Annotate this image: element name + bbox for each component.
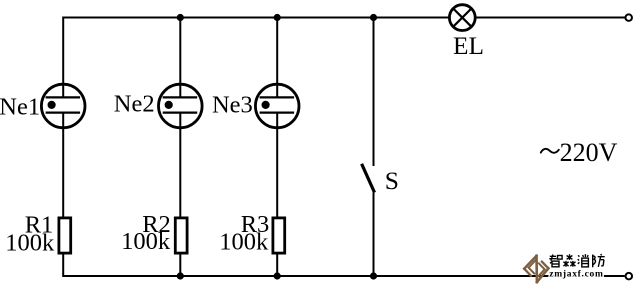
svg-text:100k: 100k bbox=[121, 228, 171, 255]
svg-text:100k: 100k bbox=[5, 230, 55, 257]
svg-text:S: S bbox=[385, 166, 399, 195]
svg-text:100k: 100k bbox=[219, 228, 269, 255]
svg-text:220V: 220V bbox=[560, 138, 618, 167]
svg-text:Ne2: Ne2 bbox=[114, 91, 155, 118]
svg-text:Ne3: Ne3 bbox=[212, 92, 253, 119]
svg-text:EL: EL bbox=[453, 32, 484, 60]
svg-text:Ne1: Ne1 bbox=[0, 94, 40, 121]
svg-text:zmjaxf.com: zmjaxf.com bbox=[549, 269, 603, 279]
